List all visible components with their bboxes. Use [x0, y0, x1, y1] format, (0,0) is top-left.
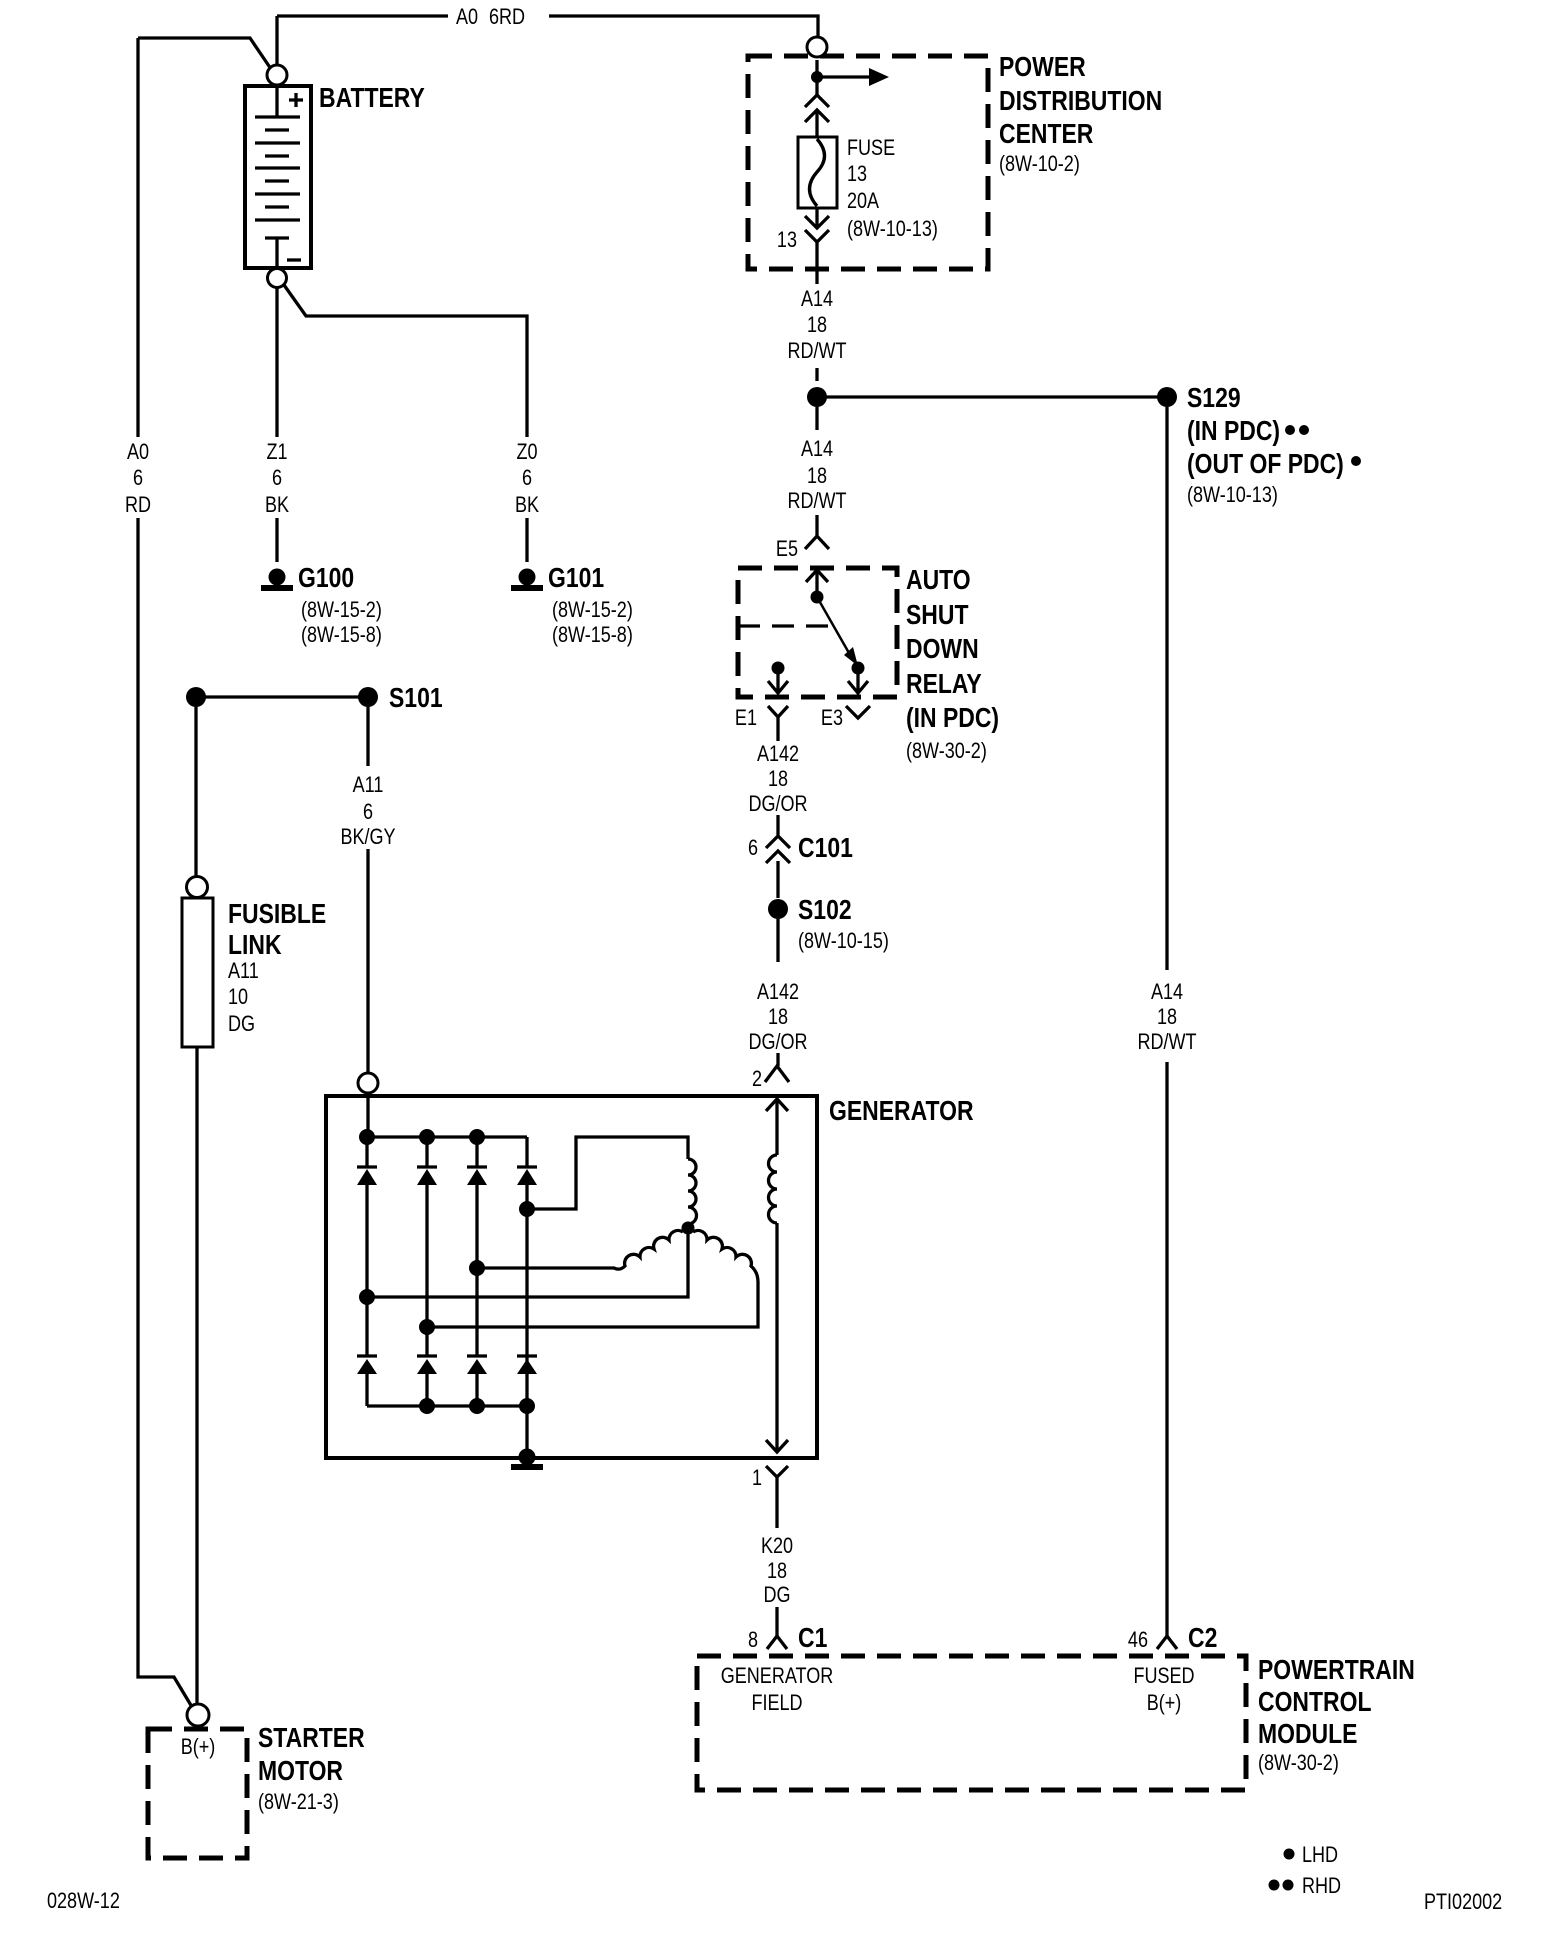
generator pin1 male arrow [766, 1440, 788, 1452]
connector generator pin 2 fork [765, 1066, 789, 1082]
svg-text:A142: A142 [757, 980, 799, 1004]
svg-text:C2: C2 [1188, 1623, 1217, 1654]
svg-text:MOTOR: MOTOR [258, 1756, 343, 1787]
svg-text:(8W-10-2): (8W-10-2) [999, 152, 1080, 176]
svg-text:GENERATOR: GENERATOR [829, 1096, 974, 1127]
node stator tap x4 [519, 1201, 535, 1217]
wire stator center to x1 [367, 1234, 688, 1297]
label GENERATOR FIELD [721, 1664, 834, 1715]
label K20 18 DG [761, 1534, 793, 1607]
stator winding phase2 [477, 1230, 683, 1269]
node stator tap x3 [469, 1260, 485, 1276]
svg-text:6: 6 [272, 466, 282, 490]
svg-text:S102: S102 [798, 895, 852, 926]
diode D1 top [357, 1137, 377, 1356]
relay internal divider [738, 624, 831, 627]
wire Z1 [275, 288, 278, 562]
svg-text:Z1: Z1 [266, 440, 287, 464]
diode D3 bottom [467, 1356, 487, 1406]
svg-text:AUTO: AUTO [906, 565, 971, 596]
node stator center [682, 1222, 695, 1235]
connector E3 chevron [846, 706, 870, 718]
relay E1 arrow down [768, 674, 788, 693]
PDC box [748, 56, 988, 269]
diode D2 top [417, 1137, 437, 1356]
ground generator case [511, 1449, 543, 1471]
wire fusible link to starter [195, 1047, 198, 1703]
svg-text:A0: A0 [456, 5, 478, 29]
svg-text:S101: S101 [389, 683, 443, 714]
relay switch arm [817, 597, 858, 666]
diode D2 bottom [417, 1356, 437, 1406]
connector C101 [766, 836, 790, 863]
label A142 18 DG/OR [748, 742, 807, 816]
svg-text:DG: DG [228, 1012, 255, 1036]
svg-text:20A: 20A [847, 189, 880, 213]
svg-text:LHD: LHD [1302, 1843, 1338, 1867]
svg-text:E3: E3 [821, 706, 843, 730]
svg-text:STARTER: STARTER [258, 1723, 365, 1754]
svg-text:(OUT OF PDC): (OUT OF PDC) [1187, 449, 1344, 480]
connector E5 fork [805, 536, 829, 549]
svg-text:8: 8 [748, 1628, 758, 1652]
wire A142 lower [776, 919, 779, 1066]
label A11 6 BK/GY [340, 773, 395, 849]
PCM box [697, 1656, 1246, 1790]
svg-text:028W-12: 028W-12 [47, 1889, 120, 1913]
svg-text:G101: G101 [548, 563, 604, 594]
node bus x3 [469, 1129, 485, 1145]
label A14 18 RD/WT third [1137, 980, 1196, 1054]
svg-text:RELAY: RELAY [906, 669, 982, 700]
svg-text:13: 13 [777, 228, 797, 252]
svg-text:RD/WT: RD/WT [787, 339, 846, 363]
wire A14 below PDC [815, 269, 818, 536]
label Z0 6 BK [515, 440, 540, 517]
relay E5 male arrow [806, 570, 828, 591]
svg-text:6: 6 [522, 466, 532, 490]
svg-text:DG: DG [763, 1583, 790, 1607]
stator winding phase1 [688, 1159, 697, 1224]
label A14 18 RD/WT second [787, 437, 846, 513]
svg-text:CONTROL: CONTROL [1258, 1687, 1371, 1718]
node PDC feed dot [811, 71, 823, 83]
connector generator pin 1 fork [766, 1466, 788, 1490]
svg-text:2: 2 [752, 1067, 762, 1091]
svg-text:(8W-30-2): (8W-30-2) [906, 739, 987, 763]
node stator tap x2 [419, 1319, 435, 1335]
ground G100 [261, 569, 293, 592]
connector C2 fork [1157, 1636, 1177, 1649]
fusible link [182, 877, 213, 1048]
wire PDC internal [815, 60, 818, 269]
relay E3 arrow down [848, 674, 868, 693]
svg-text:POWERTRAIN: POWERTRAIN [1258, 1655, 1415, 1686]
svg-text:POWER: POWER [999, 52, 1086, 83]
svg-text:(8W-15-8): (8W-15-8) [301, 623, 382, 647]
svg-text:C1: C1 [798, 1623, 827, 1654]
svg-text:6: 6 [363, 800, 373, 824]
svg-text:A14: A14 [801, 287, 833, 311]
svg-text:(8W-10-15): (8W-10-15) [798, 929, 889, 953]
label A142 18 DG/OR second [748, 980, 807, 1054]
wire A14 right column [1165, 407, 1168, 1636]
diode D4 top [517, 1137, 537, 1406]
svg-text:18: 18 [807, 464, 827, 488]
connector chevrons above fuse [805, 95, 829, 122]
label A0 6 RD [125, 440, 151, 517]
svg-text:10: 10 [228, 985, 248, 1009]
svg-text:DISTRIBUTION: DISTRIBUTION [999, 86, 1162, 117]
svg-text:RD: RD [125, 493, 151, 517]
generator terminal circle [358, 1073, 378, 1093]
svg-text:A142: A142 [757, 742, 799, 766]
svg-text:RD/WT: RD/WT [1137, 1030, 1196, 1054]
svg-text:18: 18 [768, 767, 788, 791]
svg-text:GENERATOR: GENERATOR [721, 1664, 834, 1688]
svg-text:6: 6 [748, 836, 758, 860]
svg-text:PTI02002: PTI02002 [1424, 1890, 1502, 1914]
generator B+ bus [367, 1093, 527, 1137]
svg-text:C101: C101 [798, 833, 853, 864]
svg-text:E5: E5 [776, 537, 798, 561]
svg-text:SHUT: SHUT [906, 600, 969, 631]
splice S101 [186, 687, 378, 707]
stator winding phase3 [427, 1230, 758, 1327]
svg-text:DG/OR: DG/OR [748, 1030, 807, 1054]
diode D3 top [467, 1137, 487, 1356]
svg-text:46: 46 [1128, 1628, 1148, 1652]
splice S102 [768, 899, 788, 919]
svg-text:A11: A11 [353, 773, 384, 797]
svg-text:(8W-10-13): (8W-10-13) [1187, 483, 1278, 507]
label FUSED B+ [1133, 1664, 1194, 1715]
generator pin2 male arrow [766, 1099, 788, 1111]
wire Z0 [284, 285, 527, 562]
relay common node [811, 591, 824, 604]
svg-text:(8W-30-2): (8W-30-2) [1258, 1751, 1339, 1775]
legend LHD [1284, 1849, 1295, 1860]
svg-text:(8W-15-2): (8W-15-2) [301, 598, 382, 622]
PDC terminal circle [807, 37, 827, 57]
starter terminal circle [187, 1704, 209, 1726]
svg-text:DG/OR: DG/OR [748, 792, 807, 816]
battery B1 [245, 65, 311, 288]
svg-text:(8W-15-2): (8W-15-2) [552, 598, 633, 622]
svg-text:S129: S129 [1187, 383, 1241, 414]
wire left A0 branch [138, 38, 271, 1707]
relay node E1 [772, 662, 785, 675]
svg-text:B(+): B(+) [1147, 1691, 1182, 1715]
svg-text:(IN PDC): (IN PDC) [906, 703, 999, 734]
node ground bus x2 [419, 1398, 435, 1414]
node ground bus x3 [469, 1398, 485, 1414]
svg-text:FUSIBLE: FUSIBLE [228, 899, 326, 930]
label Z1 6 BK [265, 440, 290, 517]
diode D1 bottom [357, 1356, 377, 1406]
svg-text:B(+): B(+) [181, 1735, 216, 1759]
legend RHD [1269, 1880, 1280, 1891]
node stator tap x1 [359, 1289, 375, 1305]
wire A0 top horizontal [277, 16, 818, 37]
wire A11 [366, 707, 369, 1072]
svg-text:(IN PDC): (IN PDC) [1187, 416, 1280, 447]
svg-text:1: 1 [752, 1466, 762, 1490]
diode D4 bottom [517, 1356, 537, 1374]
starter motor box [148, 1729, 247, 1858]
svg-text:FUSE: FUSE [847, 136, 895, 160]
svg-text:13: 13 [847, 162, 867, 186]
svg-text:A11: A11 [228, 959, 259, 983]
svg-text:RD/WT: RD/WT [787, 489, 846, 513]
svg-text:6RD: 6RD [489, 5, 525, 29]
svg-text:BK: BK [515, 493, 540, 517]
generator box [326, 1096, 817, 1458]
connector C1 fork [767, 1636, 787, 1649]
wire A142 upper [776, 734, 779, 898]
wire battery plus stem [275, 16, 278, 64]
ASD relay box [738, 568, 897, 697]
relay node E3 [852, 662, 865, 675]
svg-text:LINK: LINK [228, 930, 282, 961]
svg-text:MODULE: MODULE [1258, 1719, 1357, 1750]
wire generator field column [775, 1099, 778, 1451]
wire K20 [775, 1490, 778, 1636]
svg-text:18: 18 [768, 1005, 788, 1029]
label A14 18 RD/WT [787, 287, 846, 363]
generator ground bus [367, 1404, 527, 1407]
svg-text:18: 18 [1157, 1005, 1177, 1029]
node ground bus x4 [519, 1398, 535, 1414]
svg-text:A14: A14 [1151, 980, 1183, 1004]
svg-text:DOWN: DOWN [906, 634, 979, 665]
connector chevrons below fuse pin 13 [805, 216, 829, 242]
svg-text:BK/GY: BK/GY [340, 825, 395, 849]
svg-text:A14: A14 [801, 437, 833, 461]
svg-text:A0: A0 [127, 440, 149, 464]
field winding [769, 1155, 778, 1223]
arrow PDC feed [822, 68, 889, 86]
svg-text:K20: K20 [761, 1534, 793, 1558]
fuse F13 20A [798, 137, 837, 208]
svg-text:BK: BK [265, 493, 290, 517]
svg-text:CENTER: CENTER [999, 119, 1093, 150]
node bus x1 [359, 1129, 375, 1145]
connector E1 fork [768, 706, 788, 734]
svg-text:RHD: RHD [1302, 1874, 1341, 1898]
node bus x2 [419, 1129, 435, 1145]
svg-text:(8W-10-13): (8W-10-13) [847, 217, 938, 241]
svg-text:(8W-21-3): (8W-21-3) [258, 1790, 339, 1814]
ground G101 [511, 569, 543, 592]
splice S129 [807, 387, 1177, 407]
svg-text:18: 18 [767, 1559, 787, 1583]
svg-text:18: 18 [807, 313, 827, 337]
wire to generator ground [525, 1406, 528, 1452]
svg-text:FIELD: FIELD [751, 1691, 802, 1715]
svg-text:FUSED: FUSED [1133, 1664, 1194, 1688]
svg-text:6: 6 [133, 466, 143, 490]
svg-text:G100: G100 [298, 563, 354, 594]
svg-text:Z0: Z0 [516, 440, 537, 464]
svg-text:(8W-15-8): (8W-15-8) [552, 623, 633, 647]
svg-text:BATTERY: BATTERY [319, 83, 425, 114]
svg-text:E1: E1 [735, 706, 757, 730]
wire to fusible link [194, 707, 197, 877]
wire stator phase1 routing [527, 1137, 688, 1209]
